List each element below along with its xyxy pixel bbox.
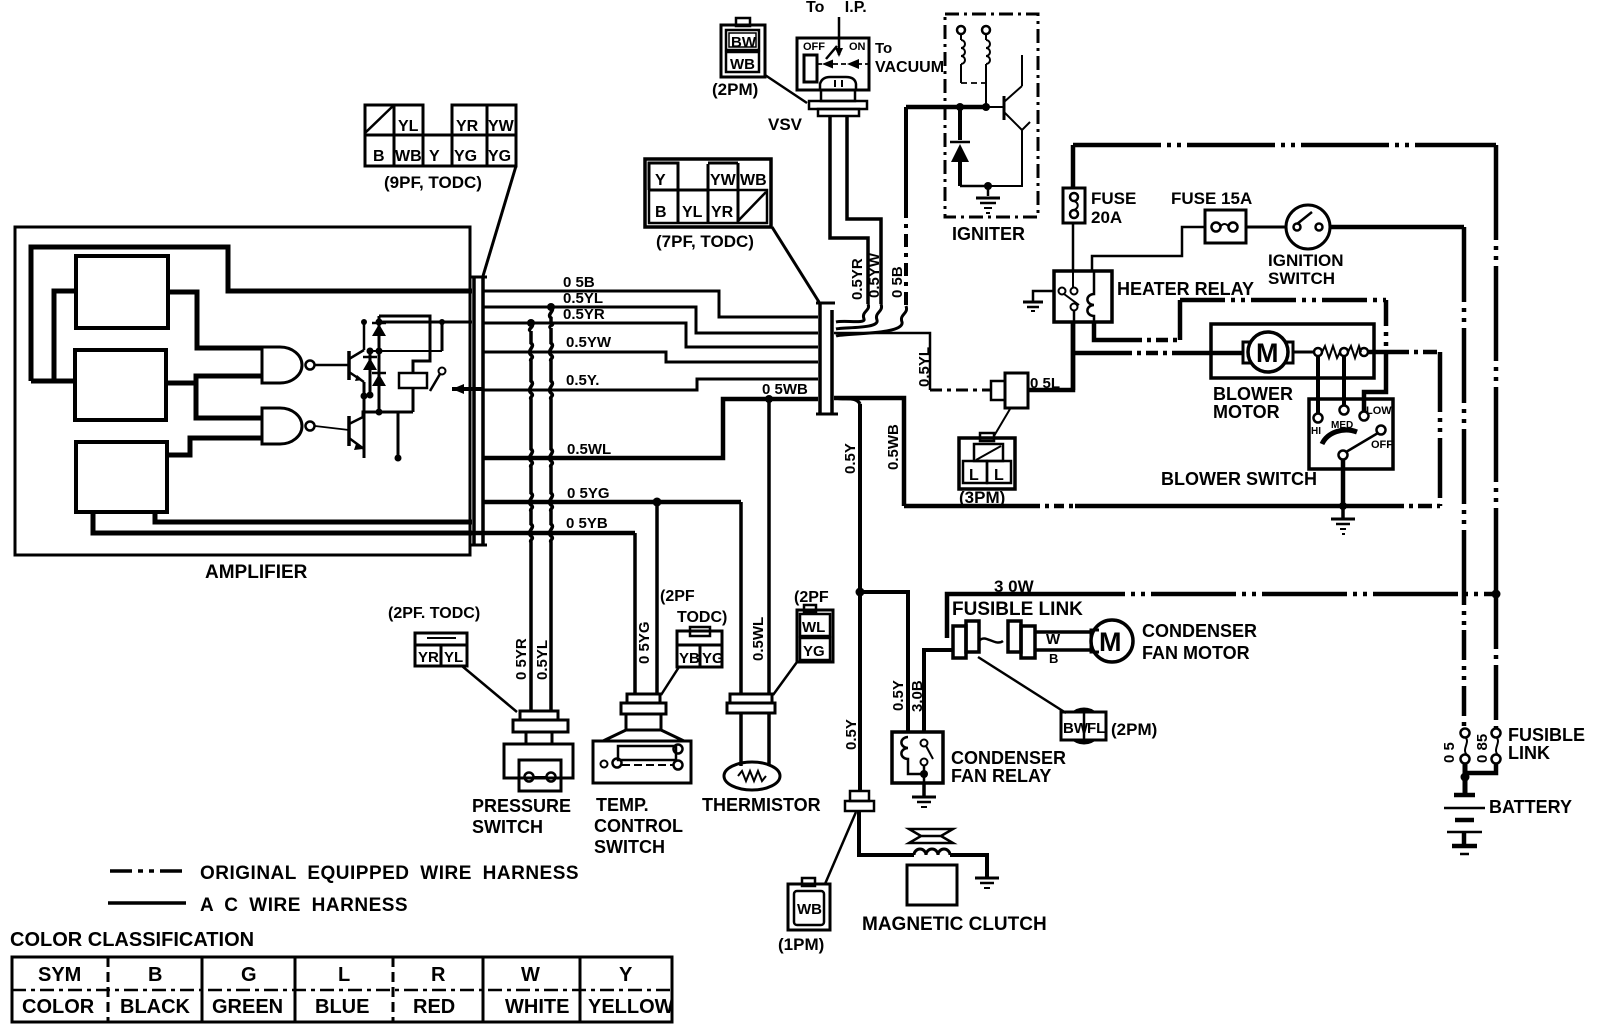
svg-text:IGNITION: IGNITION [1268, 251, 1344, 270]
magnetic clutch body [907, 865, 957, 905]
svg-text:CONTROL: CONTROL [594, 816, 683, 836]
wire 0.5YL drop to pressure switch [550, 307, 553, 328]
svg-text:0 85: 0 85 [1474, 734, 1491, 763]
wire 0.5Y from bar [836, 398, 860, 404]
svg-text:0.5WB: 0.5WB [885, 424, 902, 470]
svg-text:(1PM): (1PM) [778, 935, 824, 954]
connector WB 1PM [788, 884, 830, 930]
svg-text:FUSE: FUSE [1091, 189, 1136, 208]
blower resistor [1293, 351, 1314, 354]
wire relay to row y412 [412, 388, 415, 412]
wire resistor to right rail [1368, 350, 1395, 355]
node 0.5YG junction [653, 498, 662, 507]
wire 9PF lead line [483, 166, 516, 276]
wire clutch feed [859, 811, 914, 855]
connector 7PF TODC [645, 159, 771, 227]
svg-text:YG: YG [454, 148, 477, 165]
wire 0.5YG drop to temp switch [655, 502, 659, 694]
wire NAND2 output to Q2 base [315, 426, 349, 430]
wire 0.5YR drop to pressure switch [530, 323, 533, 331]
svg-text:(2PF. TODC): (2PF. TODC) [388, 605, 480, 622]
wire 7PF lead line [772, 227, 819, 302]
ground magnetic clutch [975, 877, 999, 880]
svg-text:Y: Y [655, 172, 666, 189]
svg-text:FUSE 15A: FUSE 15A [1171, 189, 1252, 208]
rail top battery feed [1073, 143, 1496, 148]
svg-text:SYM: SYM [38, 964, 81, 986]
wire 0.5YB drop to temp switch [633, 533, 637, 694]
svg-text:BLACK: BLACK [120, 996, 191, 1018]
blower switch arc [1322, 430, 1357, 444]
svg-text:IGNITER: IGNITER [952, 224, 1025, 244]
svg-text:M: M [1256, 338, 1279, 368]
VSV coil rect [804, 55, 817, 82]
svg-text:0.5YR: 0.5YR [563, 306, 605, 323]
wire 0.5YG drop to thermistor [739, 502, 743, 694]
wire heater relay switch out [1071, 322, 1076, 390]
svg-text:YB: YB [679, 650, 700, 667]
svg-text:(7PF, TODC): (7PF, TODC) [656, 232, 754, 251]
ground blower switch [1341, 506, 1345, 518]
svg-text:0.5YL: 0.5YL [534, 640, 551, 680]
svg-text:WB: WB [730, 56, 755, 73]
wire HI drop [1316, 356, 1320, 413]
svg-text:BW: BW [731, 34, 757, 51]
svg-text:LINK: LINK [1508, 743, 1550, 763]
VSV switch arrows [817, 63, 872, 65]
VSV flange wide [809, 101, 867, 109]
svg-text:YL: YL [682, 204, 703, 221]
igniter terminal 2 [982, 26, 990, 34]
svg-text:YR: YR [711, 204, 734, 221]
relay K1 inside amplifier [399, 373, 427, 388]
wire box1 right to NAND1 input1 [168, 292, 262, 348]
svg-text:OFF: OFF [1371, 439, 1393, 451]
blower motor M [1248, 332, 1288, 372]
wire 3.0B tap [924, 650, 954, 732]
wire amp top inner branch [379, 316, 430, 373]
svg-text:WB: WB [740, 172, 767, 189]
svg-text:0.5Y: 0.5Y [890, 680, 907, 711]
svg-text:L: L [969, 467, 979, 484]
svg-text:0 5YG: 0 5YG [567, 485, 610, 502]
wire Q1 collector up [363, 322, 366, 350]
wire Q1 emitter down to 0.5WL row [363, 382, 366, 458]
svg-text:RED: RED [413, 996, 455, 1018]
wire NAND1 output to Q1 base [315, 364, 349, 367]
igniter diode [958, 107, 962, 140]
wire VSV pipe right 0.5YW [847, 116, 881, 304]
svg-text:FL: FL [1087, 720, 1105, 737]
svg-text:SWITCH: SWITCH [594, 837, 665, 857]
wire 0.5YG row [484, 500, 741, 505]
svg-text:Y: Y [429, 148, 440, 165]
connector 3PM [959, 433, 1015, 489]
diode D3 [372, 374, 386, 386]
wire arrow 0.5Y into switch [452, 387, 484, 391]
connector 9PF TODC [365, 105, 516, 166]
svg-text:0 5YG: 0 5YG [636, 621, 653, 664]
connector BW WB 2PM [721, 18, 765, 77]
svg-text:BLOWER SWITCH: BLOWER SWITCH [1161, 469, 1317, 489]
svg-text:WB: WB [797, 901, 822, 918]
svg-text:FAN MOTOR: FAN MOTOR [1142, 643, 1250, 663]
rail battery main [1494, 145, 1499, 594]
transistor Q1 [349, 350, 364, 382]
svg-text:HI: HI [1311, 426, 1321, 437]
svg-text:FUSIBLE LINK: FUSIBLE LINK [952, 599, 1083, 620]
magnetic clutch coil [914, 849, 950, 855]
diode D2 branch [369, 351, 372, 396]
svg-text:YR: YR [456, 118, 479, 135]
svg-text:0 5: 0 5 [1441, 742, 1458, 763]
svg-text:YW: YW [488, 118, 515, 135]
wire fuse20A to heater relay [1072, 223, 1075, 271]
wire amp relay feed vertical [441, 322, 444, 351]
node 0.5WL thermistor tap [765, 395, 773, 403]
legend original harness [110, 869, 186, 873]
wire 0.5L to heater relay [1028, 322, 1073, 390]
wire BWFL lead [978, 657, 1066, 713]
amplifier block 1 [76, 256, 168, 328]
svg-text:MOTOR: MOTOR [1213, 402, 1280, 422]
VSV body [797, 38, 869, 90]
amplifier outer box [15, 227, 470, 555]
svg-text:0.5Y: 0.5Y [843, 719, 860, 750]
svg-text:W: W [521, 964, 540, 986]
svg-text:B: B [148, 964, 162, 986]
wire 0.5YR row [484, 323, 818, 347]
transistor Q2 [349, 416, 364, 450]
wire 2PM lead [765, 75, 807, 103]
svg-text:(2PM): (2PM) [712, 80, 758, 99]
diode D1 [372, 324, 386, 336]
svg-text:YL: YL [444, 649, 463, 666]
svg-text:SWITCH: SWITCH [1268, 269, 1335, 288]
svg-text:0.5YL: 0.5YL [916, 347, 933, 387]
switch S1 inside amplifier [439, 368, 446, 375]
svg-text:0.5YW: 0.5YW [866, 252, 883, 298]
wire amp thin row y351 [370, 350, 442, 352]
svg-text:THERMISTOR: THERMISTOR [702, 795, 821, 815]
rail ignition to fusible link [1462, 227, 1467, 630]
igniter dashed link [961, 82, 986, 84]
condenser fan relay contacts [921, 740, 928, 747]
wire box3 right to NAND2 input2 [167, 438, 262, 455]
igniter transistor Q [986, 106, 1004, 108]
svg-text:AMPLIFIER: AMPLIFIER [205, 562, 308, 583]
svg-text:BLOWER: BLOWER [1213, 384, 1293, 404]
blower switch box [1309, 399, 1393, 469]
svg-text:COLOR CLASSIFICATION: COLOR CLASSIFICATION [10, 929, 254, 951]
heater relay contacts [1059, 288, 1066, 295]
node amp junctions [367, 348, 374, 355]
svg-text:WL: WL [802, 619, 825, 636]
svg-text:WHITE: WHITE [505, 996, 569, 1018]
wire 2PF lead pressure [462, 666, 517, 712]
svg-text:FUSIBLE: FUSIBLE [1508, 725, 1585, 745]
wire fusible link to condenser motor [1035, 630, 1092, 634]
blower switch lever [1346, 433, 1378, 452]
wire box2 right to NAND gates [166, 376, 262, 383]
svg-text:M: M [1099, 627, 1122, 657]
svg-text:YG: YG [488, 148, 511, 165]
svg-text:(2PF: (2PF [660, 588, 695, 605]
condenser fusible link holder [953, 621, 1035, 658]
igniter box [945, 14, 1038, 217]
wire 0.5Y to magnetic clutch [858, 592, 862, 791]
igniter coil 1 [961, 34, 965, 83]
igniter coil 2 [986, 34, 990, 107]
blower motor box [1211, 324, 1374, 378]
heater relay box [1054, 271, 1112, 322]
wire VSV pipe left 0.5YR [830, 116, 868, 304]
wire 0.5YB row [472, 531, 635, 536]
svg-text:LOW: LOW [1366, 405, 1392, 417]
svg-text:To I.P.: To I.P. [806, 0, 867, 16]
condenser fan motor M [1091, 630, 1099, 652]
wire 0.5B row [484, 291, 818, 317]
wire 0.5WB from bar [834, 398, 904, 506]
amplifier connector bar [472, 277, 476, 545]
svg-text:VSV: VSV [768, 115, 803, 134]
diode chain D1 vertical [378, 316, 381, 412]
node 0.5YR junction [527, 319, 535, 327]
wire original harness to blower LOW [1180, 298, 1386, 303]
central connector bar [818, 303, 822, 414]
svg-text:20A: 20A [1091, 208, 1122, 227]
wire box3 bottom net lower [93, 512, 472, 533]
wire y412 to 0.5WL [397, 412, 400, 458]
legend ac harness [108, 901, 186, 905]
svg-text:3.0B: 3.0B [909, 680, 926, 712]
amplifier block 3 [76, 442, 167, 512]
wire 0.5WL drop to thermistor [767, 399, 771, 694]
svg-text:YG: YG [803, 643, 825, 660]
wire 0.5YL row [484, 307, 818, 333]
svg-text:0.5YW: 0.5YW [566, 334, 612, 351]
wire amp 0.5YR inner row [379, 321, 472, 324]
wire fusible links join [1463, 763, 1468, 793]
svg-text:0.5WL: 0.5WL [750, 617, 767, 661]
ground igniter [987, 186, 990, 196]
svg-text:(2PF: (2PF [794, 589, 829, 606]
svg-text:0 5B: 0 5B [563, 274, 595, 291]
svg-text:R: R [431, 964, 446, 986]
NAND gate U1 [262, 347, 302, 383]
svg-text:YELLOW: YELLOW [588, 996, 674, 1018]
svg-text:B: B [373, 148, 385, 165]
wire blower switch common [1341, 459, 1346, 506]
svg-text:SWITCH: SWITCH [472, 817, 543, 837]
NAND gate U2 [262, 408, 302, 444]
color table [12, 957, 672, 1022]
svg-text:(3PM): (3PM) [959, 488, 1005, 507]
svg-text:W: W [1046, 631, 1061, 648]
svg-text:(9PF, TODC): (9PF, TODC) [384, 173, 482, 192]
wire ignition switch to right rail [1330, 225, 1464, 230]
wire 2PF lead temp [661, 667, 679, 695]
wire right rail down [1438, 352, 1443, 506]
svg-text:(2PM): (2PM) [1111, 720, 1157, 739]
ground condenser fan relay [922, 783, 926, 796]
wire Q2 collector to relay row [363, 412, 413, 417]
node 0.5YL junction [547, 303, 555, 311]
ground heater relay [1033, 291, 1054, 301]
svg-text:A C WIRE HARNESS: A C WIRE HARNESS [200, 895, 408, 916]
svg-text:0.5YR: 0.5YR [849, 258, 866, 300]
battery [1454, 793, 1475, 798]
magnetic clutch pulley [909, 829, 953, 843]
connector BW FL 2PM [1067, 709, 1101, 743]
svg-text:0.5Y: 0.5Y [842, 443, 859, 474]
blower switch terminals [1314, 414, 1323, 423]
svg-text:CONDENSER: CONDENSER [1142, 621, 1257, 641]
svg-text:GREEN: GREEN [212, 996, 283, 1018]
thermistor [727, 694, 775, 713]
svg-text:YL: YL [398, 118, 419, 135]
wire amp box1 left feed [54, 291, 76, 381]
svg-text:ORIGINAL EQUIPPED WIRE HARN: ORIGINAL EQUIPPED WIRE HARNESS [200, 863, 579, 884]
svg-text:FAN RELAY: FAN RELAY [951, 766, 1051, 786]
condenser fan relay box [892, 732, 943, 783]
svg-text:0 5YR: 0 5YR [513, 638, 530, 680]
svg-text:OFF: OFF [803, 41, 825, 53]
wire 0.5YR squiggle into bar [836, 304, 869, 322]
svg-text:TODC): TODC) [677, 609, 727, 626]
wire 0.5B vertical from igniter [904, 107, 908, 205]
wire amp supply top [31, 247, 472, 381]
wire To I.P. lead [838, 17, 841, 55]
fuse 20A [1071, 145, 1076, 188]
wire box2 to NAND2 input1 [196, 383, 262, 418]
svg-text:BATTERY: BATTERY [1489, 797, 1572, 817]
svg-text:0 5B: 0 5B [889, 266, 906, 298]
wire 0.5Y tap to relay [856, 588, 865, 597]
wire 0.5YW squiggle into bar [836, 304, 882, 329]
wire 0.5WB ground run [904, 504, 1030, 509]
svg-text:0.5Y.: 0.5Y. [566, 372, 599, 389]
wire 0.5WL row to 0.5WB [484, 399, 818, 458]
svg-text:YR: YR [418, 649, 439, 666]
svg-text:YG: YG [702, 650, 724, 667]
svg-text:Y: Y [619, 964, 633, 986]
svg-text:L: L [994, 467, 1004, 484]
svg-text:0.5WL: 0.5WL [567, 441, 611, 458]
svg-text:BW: BW [1063, 720, 1089, 737]
connector 0.5L [991, 381, 1005, 400]
svg-text:HEATER RELAY: HEATER RELAY [1117, 279, 1254, 299]
wire 2PF lead thermistor [773, 662, 797, 695]
svg-text:BLUE: BLUE [315, 996, 369, 1018]
svg-text:G: G [241, 964, 257, 986]
wire 0.5L to blower motor [1073, 351, 1120, 356]
svg-text:YW: YW [710, 172, 737, 189]
wire MED drop [1342, 356, 1346, 406]
igniter terminal 1 [957, 26, 965, 34]
pressure switch [504, 711, 573, 791]
amplifier block 2 [75, 350, 166, 420]
svg-text:To: To [875, 40, 892, 57]
svg-text:B: B [1049, 651, 1058, 666]
heater relay coil [1087, 271, 1094, 322]
wire fuse15A to heater relay coil [1092, 227, 1205, 271]
wire 0.5B squiggle into bar [836, 306, 907, 336]
ignition switch [1286, 205, 1330, 249]
svg-text:L: L [338, 964, 350, 986]
wire box3 bottom net upper [155, 512, 472, 522]
fusible link 0.85 [1492, 729, 1501, 738]
wire 0.5Y row [484, 379, 818, 390]
wire 3PM lead [994, 409, 1010, 436]
fusible link 0.5 [1461, 729, 1470, 738]
wire 0.5YL from bar to 0.5L connector [834, 333, 930, 390]
svg-text:0.5YL: 0.5YL [563, 290, 603, 307]
condenser fan relay coil [901, 737, 924, 774]
svg-text:TEMP.: TEMP. [596, 795, 649, 815]
svg-text:ON: ON [849, 41, 866, 53]
wire amp box2 left feed [31, 379, 75, 384]
svg-text:CONDENSER: CONDENSER [951, 748, 1066, 768]
temp control switch [593, 694, 691, 783]
wire heater relay coil out [1094, 322, 1130, 340]
svg-text:WB: WB [395, 148, 422, 165]
wire 1PM lead [825, 812, 856, 884]
wire Q2 emitter down [363, 449, 366, 458]
svg-text:PRESSURE: PRESSURE [472, 796, 571, 816]
wire 0.5YW row [484, 352, 818, 362]
VSV diaphragm dome [820, 77, 856, 90]
svg-text:VACUUM: VACUUM [875, 59, 944, 76]
svg-text:0 5YB: 0 5YB [566, 515, 608, 532]
svg-text:MAGNETIC CLUTCH: MAGNETIC CLUTCH [862, 914, 1047, 935]
svg-text:B: B [655, 204, 667, 221]
wire igniter base feed [906, 105, 986, 110]
VSV flange neck [821, 90, 855, 101]
svg-text:COLOR: COLOR [22, 996, 95, 1018]
magnetic clutch connector stack [850, 791, 869, 801]
